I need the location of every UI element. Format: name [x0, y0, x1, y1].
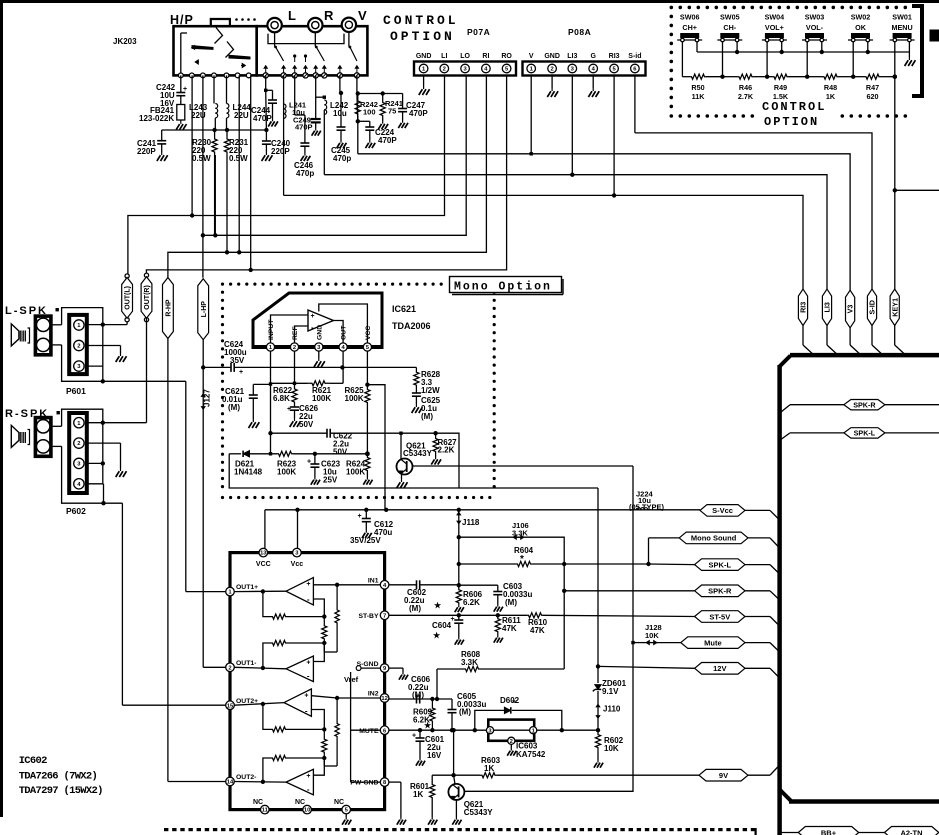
- resistor R625 100K: [366, 351, 368, 389]
- svg-text:Mono Sound: Mono Sound: [691, 534, 737, 543]
- connector L-SPK plug: [35, 316, 51, 355]
- ground C240: [265, 152, 267, 155]
- net tag 9V: [699, 769, 748, 781]
- svg-text:1.5K: 1.5K: [773, 92, 789, 101]
- svg-text:Mono Option: Mono Option: [454, 281, 552, 294]
- IC602 internal amplifier A4: [286, 769, 313, 795]
- svg-text:470P: 470P: [295, 123, 313, 132]
- svg-text:VCC: VCC: [365, 326, 372, 340]
- wire Q621 collector to mute net: [413, 465, 634, 467]
- svg-text:2: 2: [510, 739, 513, 745]
- svg-text:(M): (M): [412, 691, 424, 700]
- svg-text:SW03: SW03: [805, 13, 825, 22]
- svg-text:LI3: LI3: [823, 302, 832, 312]
- svg-text:11: 11: [262, 808, 269, 814]
- wire loop pin1 junction: [270, 433, 272, 454]
- wire 9V net with R603: [432, 774, 480, 776]
- svg-text:RO: RO: [501, 53, 512, 60]
- svg-text:0.5W: 0.5W: [192, 154, 211, 163]
- net tag BB+: [798, 827, 858, 835]
- IC621 pins 1-5: [266, 343, 274, 351]
- svg-text:P07A: P07A: [467, 27, 490, 37]
- svg-text:*: *: [512, 698, 516, 708]
- IC602 pin15 OUT2+: [226, 701, 235, 710]
- capacitor C241 220P: [161, 130, 163, 141]
- svg-text:S-Vcc: S-Vcc: [712, 506, 733, 515]
- border frame top: [0, 0, 939, 3]
- svg-text:C5343Y: C5343Y: [464, 808, 494, 817]
- resistor R621 100K feedback: [271, 382, 308, 384]
- ground C603: [497, 604, 499, 607]
- resistor R47 620: [853, 76, 864, 78]
- main board box outline: [790, 353, 939, 358]
- IC621 internal wires: [271, 315, 309, 343]
- wire MUTE to Q621 drop: [453, 730, 455, 775]
- svg-text:470p: 470p: [333, 154, 351, 163]
- resistor R603 1K: [480, 773, 497, 778]
- wire J118 column: [458, 537, 460, 588]
- svg-text:J118: J118: [462, 518, 480, 527]
- svg-text:220P: 220P: [271, 147, 290, 156]
- resistor R627 2.2K: [433, 435, 438, 455]
- IC602 pin1 OUT1+: [226, 587, 235, 596]
- svg-text:RI3: RI3: [609, 53, 620, 60]
- svg-text:PW-GND: PW-GND: [350, 780, 378, 787]
- wire LO net B: [203, 76, 466, 236]
- wire C622 bus to Q621: [399, 432, 402, 435]
- svg-text:-: -: [307, 785, 310, 794]
- svg-text:REF.: REF.: [292, 325, 299, 340]
- wire IC621 pin2 column: [294, 351, 296, 388]
- ground C601: [419, 758, 421, 761]
- wire P601 pin3: [87, 365, 103, 367]
- svg-text:50V: 50V: [333, 448, 348, 457]
- svg-text:SW06: SW06: [680, 13, 700, 22]
- RCA jack L: [267, 18, 281, 32]
- ground C224: [369, 140, 371, 143]
- svg-text:35V: 35V: [230, 356, 245, 365]
- svg-text:+: +: [311, 313, 315, 320]
- capacitor C244 470P: [266, 89, 273, 91]
- wire LI3 net: [323, 110, 325, 175]
- svg-text:1N4148: 1N4148: [234, 468, 263, 477]
- svg-text:R46: R46: [739, 83, 752, 92]
- ground SW01 right contact: [908, 57, 910, 60]
- resistor R46 2.7K: [723, 76, 738, 78]
- capacitor C224 470P: [358, 120, 370, 122]
- svg-text:RI: RI: [482, 53, 489, 60]
- svg-text:OUT1-: OUT1-: [236, 660, 256, 667]
- wire RCA pin1 down: [265, 75, 267, 90]
- svg-text:10u: 10u: [333, 109, 347, 118]
- ground C626: [294, 418, 296, 421]
- resistor R623 100K: [277, 451, 293, 456]
- svg-text:IN2: IN2: [368, 691, 379, 698]
- wire R625 branch to VCC bus: [367, 385, 385, 510]
- svg-text:ST-BY: ST-BY: [358, 613, 378, 620]
- capacitor C622 2.2u 50V: [271, 432, 328, 434]
- resistor R604: [459, 563, 516, 565]
- svg-text:7: 7: [383, 613, 386, 619]
- svg-text:S-id: S-id: [628, 53, 641, 60]
- svg-text:9V: 9V: [719, 771, 728, 780]
- amplifier IC602 outline: [230, 553, 385, 810]
- svg-text:+: +: [412, 733, 416, 740]
- IC602 internal amplifier A2: [286, 656, 313, 682]
- capacitor C245 470p: [337, 126, 346, 128]
- svg-text:R-HP: R-HP: [166, 299, 173, 316]
- svg-text:(M): (M): [421, 412, 433, 421]
- svg-text:SW04: SW04: [765, 13, 785, 22]
- svg-text:2: 2: [443, 67, 446, 73]
- IC602 pin12 IN2: [380, 694, 389, 703]
- svg-text:OPTION: OPTION: [390, 29, 455, 44]
- svg-text:IC621: IC621: [392, 304, 416, 314]
- net tag S-Vcc: [700, 505, 745, 517]
- svg-text:R48: R48: [824, 83, 837, 92]
- wire OUT(L) net A: [191, 75, 193, 215]
- resistor R628 3.3 1/2W: [414, 367, 419, 390]
- svg-text:GND: GND: [544, 53, 560, 60]
- svg-text:3.3K: 3.3K: [461, 658, 478, 667]
- ground C625: [415, 404, 417, 407]
- wire VCC bus y510: [265, 509, 643, 511]
- wire KEY1 from control box: [894, 77, 896, 191]
- ground C246: [304, 153, 306, 156]
- wire MUTE net: [389, 729, 598, 731]
- headphone jack pins: [178, 73, 183, 78]
- wire L-HP down / jumper J127: [202, 340, 204, 668]
- svg-text:620: 620: [867, 92, 879, 101]
- ground IC602 NC pin5: [345, 814, 347, 817]
- capacitor C623 10u 25V: [314, 454, 316, 464]
- transistor Q621 C5343Y (mute): [448, 784, 464, 800]
- svg-text:★: ★: [433, 631, 441, 640]
- headphone jack internal contacts: [180, 33, 182, 75]
- svg-text:INPUT: INPUT: [268, 319, 275, 340]
- resistor R624 100K: [315, 453, 368, 455]
- svg-text:IC602: IC602: [19, 755, 47, 767]
- svg-text:(M): (M): [459, 708, 471, 717]
- svg-text:TDA2006: TDA2006: [392, 321, 431, 331]
- svg-text:H/P: H/P: [170, 13, 194, 27]
- ground R241: [382, 121, 384, 124]
- IC602 internal amplifier A3: [284, 689, 311, 716]
- svg-text:SW02: SW02: [851, 13, 871, 22]
- capacitor C603 0.0033u (M): [497, 585, 499, 591]
- svg-text:NC: NC: [334, 799, 344, 806]
- net tag 12V: [695, 663, 745, 675]
- IC602 pin3 Vcc: [293, 548, 302, 557]
- IC602 pin13 VCC: [259, 548, 268, 557]
- ground P08A G pin: [592, 76, 594, 89]
- svg-text:Mute: Mute: [704, 638, 722, 647]
- ground IC621 GND pin3: [318, 351, 320, 358]
- wire H/P pin5 down: [226, 75, 228, 103]
- wire P602 pin4: [87, 483, 104, 485]
- svg-text:C604: C604: [432, 621, 452, 630]
- svg-text:JK203: JK203: [113, 37, 137, 46]
- ground R627: [435, 457, 437, 460]
- ground R624: [366, 477, 368, 480]
- ground R601: [431, 817, 433, 820]
- svg-text:+: +: [307, 459, 311, 466]
- net tag LI3 pill: [822, 289, 831, 325]
- svg-text:100K: 100K: [346, 468, 365, 477]
- svg-text:50V: 50V: [299, 420, 314, 429]
- svg-text:*: *: [520, 554, 524, 565]
- svg-text:VOL-: VOL-: [806, 23, 824, 32]
- net tag OUT(L): [125, 274, 129, 278]
- svg-text:(M): (M): [505, 598, 517, 607]
- svg-text:+: +: [304, 692, 308, 699]
- svg-text:2: 2: [77, 344, 80, 350]
- headphone jack JK203 outline: [174, 26, 257, 75]
- control option right bracket: [912, 6, 922, 96]
- wire switch resistor bus: [681, 42, 683, 77]
- capacitor C612 470u 35V/25V: [365, 510, 367, 519]
- ground C244: [272, 119, 274, 122]
- svg-text:ST-5V: ST-5V: [709, 612, 730, 621]
- ground C612: [365, 530, 367, 533]
- resistor R611 47K: [495, 615, 500, 635]
- svg-text:SW05: SW05: [720, 13, 740, 22]
- svg-text:100K: 100K: [312, 394, 331, 403]
- net tag S-ID pill: [867, 289, 876, 325]
- ground R606: [458, 605, 460, 608]
- wire Mono Sound drop: [648, 538, 650, 564]
- svg-text:2: 2: [550, 67, 553, 73]
- svg-text:22U: 22U: [234, 111, 249, 120]
- svg-text:16V: 16V: [427, 751, 442, 760]
- ground P602 pin2: [120, 468, 122, 471]
- IC602 pin9 S-GND: [380, 664, 389, 673]
- svg-text:SPK-R: SPK-R: [708, 587, 732, 596]
- svg-text:TDA7266 (7WX2): TDA7266 (7WX2): [19, 771, 97, 783]
- jumper J128 10K: [646, 640, 649, 644]
- border mark top-right: [930, 30, 939, 41]
- svg-text:22U: 22U: [191, 111, 206, 120]
- RCA jack box outline: [257, 26, 368, 75]
- svg-text:R: R: [324, 8, 334, 23]
- net tag L-HP: [198, 279, 209, 340]
- border frame left: [0, 0, 3, 817]
- wire P602 pin1 to OUT(R): [87, 422, 147, 424]
- wire input bus y367: [342, 366, 416, 368]
- svg-text:(M): (M): [409, 604, 421, 613]
- svg-text:SPK-R: SPK-R: [853, 401, 876, 410]
- capacitor C626 22u 50V: [294, 403, 296, 407]
- net tag SPK-L: [695, 559, 745, 571]
- net tag SPK-R: [695, 585, 745, 597]
- svg-text:KEY1: KEY1: [890, 298, 899, 317]
- svg-text:25V: 25V: [323, 476, 338, 485]
- svg-text:(M): (M): [228, 403, 240, 412]
- wire SPK-R inside box: [780, 405, 790, 413]
- svg-text:123-022K: 123-022K: [139, 114, 174, 123]
- wire R-HP to OUT2-: [167, 339, 169, 782]
- ground R602: [597, 760, 599, 763]
- svg-text:V: V: [358, 8, 367, 23]
- ferrite bead FB241 123-022K: [177, 105, 185, 121]
- svg-text:470P: 470P: [253, 114, 272, 123]
- ground Q621 mono emitter: [401, 474, 403, 479]
- wire P602 to OUT2+ net: [102, 423, 104, 484]
- net tag Mute: [681, 637, 745, 649]
- svg-text:J110: J110: [603, 705, 621, 714]
- wire L-HP net: [202, 75, 204, 277]
- ground R611: [497, 635, 499, 638]
- resistor R602 10K: [595, 730, 600, 752]
- IC602 internal Vref rail: [361, 667, 380, 669]
- wire P601 to OUT1+ net: [102, 325, 104, 382]
- net tag R-HP: [163, 278, 174, 339]
- IC602 pin10 NC: [303, 805, 312, 814]
- capacitor C246 470p: [300, 142, 309, 144]
- IC602 pin7 ST-BY: [380, 611, 389, 620]
- wire IC621 pin1 column: [270, 351, 272, 433]
- svg-text:NC: NC: [295, 799, 305, 806]
- svg-text:SPK-L: SPK-L: [709, 560, 732, 569]
- ground P601 pin2: [120, 353, 122, 356]
- svg-text:6.8K: 6.8K: [273, 394, 290, 403]
- wire 12V net: [598, 666, 695, 668]
- mono option dashed box: [221, 283, 224, 286]
- IC602 pin14 OUT2-: [226, 777, 235, 786]
- svg-text:VCC: VCC: [256, 561, 271, 568]
- wire C241-C240 bus y130: [162, 129, 267, 131]
- wire ST-BY net: [389, 614, 527, 616]
- net tag SPK-R inside: [844, 400, 885, 410]
- svg-text:SPK-L: SPK-L: [854, 429, 876, 438]
- wire P601 pin1 to OUT(L): [87, 324, 127, 326]
- svg-text:2.2K: 2.2K: [438, 446, 455, 455]
- svg-text:LO: LO: [460, 53, 470, 60]
- wire L-SPK plug loop to pin1 node: [51, 324, 62, 326]
- svg-text:A2-TN: A2-TN: [900, 829, 922, 835]
- svg-text:470P: 470P: [378, 136, 397, 145]
- svg-text:★: ★: [424, 721, 432, 730]
- svg-text:L: L: [288, 8, 296, 23]
- mono option label box: [450, 277, 562, 293]
- wire R-SPK plug loop to pin1 node: [51, 425, 62, 427]
- diode D602: [475, 710, 504, 730]
- svg-text:100K: 100K: [277, 468, 296, 477]
- wire SPK-L inside box: [780, 433, 790, 441]
- ground P08A GND pin: [551, 76, 553, 89]
- net tag A2-TN: [885, 827, 939, 835]
- svg-text:220P: 220P: [137, 147, 156, 156]
- resistor R230 220 0.5W: [212, 136, 217, 155]
- svg-text:CONTROL: CONTROL: [383, 13, 459, 28]
- wire RI net C: [168, 76, 487, 278]
- IC602 pin6 MUTE: [380, 726, 389, 735]
- svg-text:OUT2-: OUT2-: [236, 774, 256, 781]
- ground C621: [252, 419, 254, 422]
- capacitor C606 0.22u (M): [416, 695, 418, 704]
- svg-text:Vref: Vref: [344, 675, 359, 684]
- svg-text:V3: V3: [846, 305, 855, 314]
- svg-text:MENU: MENU: [892, 23, 913, 32]
- capacitor C602 0.22u (M): [389, 584, 417, 586]
- RCA jack pins: [263, 73, 268, 78]
- jumper J118: [458, 510, 460, 537]
- IC602 pin8 PW-GND: [380, 778, 389, 787]
- wire OUT(R) to P602: [146, 318, 148, 423]
- op-amp IC621 TDA2006 outline: [253, 293, 382, 347]
- svg-text:SW01: SW01: [892, 13, 912, 22]
- svg-text:10: 10: [304, 808, 310, 814]
- net tag ST-5V: [695, 611, 745, 623]
- svg-text:2: 2: [228, 665, 231, 671]
- svg-text:+: +: [306, 773, 310, 780]
- net tag Mono Sound: [649, 537, 680, 539]
- svg-text:100K: 100K: [345, 394, 364, 403]
- wire S-id net: [634, 76, 636, 133]
- svg-text:9.1V: 9.1V: [602, 687, 619, 696]
- svg-text:100: 100: [363, 108, 376, 117]
- svg-text:-: -: [307, 672, 310, 681]
- svg-text:+: +: [358, 513, 362, 520]
- svg-text:NC: NC: [253, 799, 263, 806]
- svg-text:10K: 10K: [645, 631, 659, 640]
- zener diode ZD601 9.1V: [597, 666, 599, 683]
- wire 12V column from mono loop: [597, 488, 599, 666]
- wire RO net D: [146, 76, 506, 276]
- capacitor C247 470P: [402, 94, 404, 109]
- connector R-SPK plug: [35, 418, 51, 457]
- svg-text:-: -: [311, 323, 314, 332]
- svg-text:GND: GND: [416, 53, 432, 60]
- wire V jack column: [356, 75, 358, 93]
- svg-text:KA7542: KA7542: [516, 750, 546, 759]
- svg-text:2.7K: 2.7K: [738, 92, 754, 101]
- wire IC621 pin4 column: [342, 351, 344, 383]
- control option dotted box: [670, 6, 674, 10]
- ground C249: [315, 128, 317, 131]
- resistor R609 6.2K: [430, 699, 435, 730]
- svg-text:R50: R50: [691, 83, 704, 92]
- svg-text:TDA7297 (15WX2): TDA7297 (15WX2): [19, 785, 103, 797]
- ground C245: [340, 140, 342, 143]
- wire IN1 to C603: [459, 584, 498, 586]
- resistor R242 100: [355, 95, 360, 120]
- net tag RI3 pill: [798, 289, 807, 325]
- wire P602 pin3: [87, 462, 103, 464]
- RCA jack R: [308, 18, 322, 32]
- ground PW-GND: [400, 817, 402, 820]
- svg-text:-: -: [307, 595, 310, 604]
- svg-text:+: +: [239, 369, 243, 376]
- IC602 pin2 OUT1-: [226, 663, 235, 672]
- capacitor C625 0.1u (M): [415, 390, 417, 393]
- wire V3 net: [358, 154, 850, 290]
- ground IC603 pin2: [510, 744, 512, 748]
- jumper J106 3.3K: [459, 537, 564, 564]
- resistor R606 6.2K: [456, 588, 461, 605]
- svg-text:P601: P601: [66, 386, 86, 396]
- svg-text:2: 2: [77, 441, 80, 447]
- svg-text:11K: 11K: [692, 92, 706, 101]
- resistor R601 1K: [431, 775, 433, 784]
- wire mute vertical net: [464, 466, 633, 791]
- svg-text:47K: 47K: [530, 626, 545, 635]
- wire switch upper bus: [697, 51, 909, 53]
- timer IC603 KA7542: [488, 720, 534, 741]
- diode-resistor loop box: [229, 454, 598, 488]
- svg-text:OUT(R): OUT(R): [144, 285, 151, 310]
- svg-text:P602: P602: [66, 506, 86, 516]
